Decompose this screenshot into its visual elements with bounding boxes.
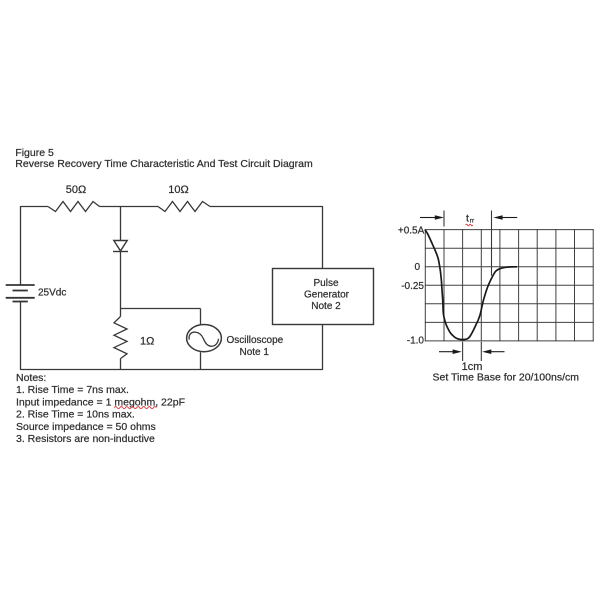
- svg-text:Set Time Base for 20/100ns/cm: Set Time Base for 20/100ns/cm: [433, 372, 580, 384]
- battery 25Vdc plate long 2: [6, 297, 35, 299]
- svg-text:10Ω: 10Ω: [168, 184, 188, 196]
- svg-text:-0.25: -0.25: [401, 281, 424, 292]
- svg-text:Note 2: Note 2: [311, 301, 341, 312]
- resistor 1Ω zigzag: [114, 317, 127, 359]
- wire: bottom rail: [21, 369, 323, 371]
- red squiggle under trr: [466, 224, 473, 226]
- battery 25Vdc plate short 2: [13, 301, 28, 303]
- pulse generator box: [273, 269, 374, 325]
- wire: node B horizontal to oscilloscope: [121, 308, 201, 310]
- trr right arrow: [493, 215, 517, 220]
- waveform curve: [425, 230, 517, 340]
- resistor 10Ω zigzag: [158, 202, 210, 212]
- wire: right rail lower: [322, 325, 324, 371]
- graph grid horizontal lines: [425, 230, 594, 341]
- oscilloscope sine symbol: [189, 332, 218, 346]
- wire: right rail upper: [322, 206, 324, 269]
- trr right boundary line: [491, 211, 493, 276]
- trr left arrow: [420, 215, 444, 220]
- svg-text:Pulse: Pulse: [313, 278, 338, 289]
- wire: diode anode to node B: [120, 252, 122, 309]
- svg-text:+0.5A: +0.5A: [398, 226, 425, 237]
- wire: left rail upper (battery + terminal): [20, 206, 22, 285]
- svg-text:50Ω: 50Ω: [66, 184, 86, 196]
- diode D1 triangle: [114, 241, 127, 251]
- red squiggle under megohm: [114, 407, 156, 409]
- battery 25Vdc plate long 1: [6, 284, 35, 286]
- svg-text:1Ω: 1Ω: [140, 335, 154, 347]
- svg-text:Input impedance = 1 megohm, 22: Input impedance = 1 megohm, 22pF: [16, 396, 185, 408]
- battery 25Vdc plate short 1: [13, 290, 28, 292]
- wire: node B down to 1Ω: [120, 309, 122, 317]
- svg-text:Reverse Recovery Time Characte: Reverse Recovery Time Characteristic And…: [15, 158, 313, 170]
- wire: diode branch from node A: [120, 206, 122, 241]
- diode D1 cathode bar: [113, 251, 128, 253]
- wire: oscilloscope to bottom rail: [200, 352, 202, 370]
- svg-text:rr: rr: [470, 217, 475, 224]
- 1cm right tick below grid: [480, 342, 482, 361]
- svg-text:Figure 5: Figure 5: [15, 147, 54, 159]
- svg-text:Oscilloscope: Oscilloscope: [227, 335, 284, 346]
- wire: 1Ω to bottom rail: [120, 359, 122, 370]
- 1cm left arrow: [439, 349, 462, 354]
- svg-text:0: 0: [414, 262, 420, 273]
- svg-text:25Vdc: 25Vdc: [38, 287, 66, 298]
- graph grid vertical lines: [425, 229, 593, 341]
- svg-text:3. Resistors are non-inductive: 3. Resistors are non-inductive: [16, 433, 155, 445]
- svg-text:Note 1: Note 1: [240, 347, 270, 358]
- resistor 50Ω zigzag: [48, 202, 100, 212]
- wire: left rail lower: [20, 302, 22, 370]
- wire: oscilloscope drop: [200, 309, 202, 325]
- svg-text:1. Rise Time = 7ns max.: 1. Rise Time = 7ns max.: [16, 384, 129, 396]
- svg-text:Notes:: Notes:: [16, 372, 46, 384]
- svg-text:t: t: [466, 213, 469, 225]
- oscilloscope probe circle: [187, 325, 222, 352]
- wire: top rail right segment: [210, 206, 323, 208]
- 1cm left tick below grid: [462, 342, 464, 361]
- svg-text:Generator: Generator: [304, 290, 350, 301]
- wire: top rail left segment: [21, 206, 49, 208]
- wire: top rail middle segment (node A junction at x=120.5): [100, 206, 159, 208]
- svg-text:2. Rise Time = 10ns max.: 2. Rise Time = 10ns max.: [16, 409, 135, 421]
- trr left tick mark: [443, 211, 445, 227]
- 1cm right arrow: [482, 349, 504, 354]
- svg-text:-1.0: -1.0: [407, 336, 425, 347]
- svg-text:Source impedance = 50 ohms: Source impedance = 50 ohms: [16, 421, 156, 433]
